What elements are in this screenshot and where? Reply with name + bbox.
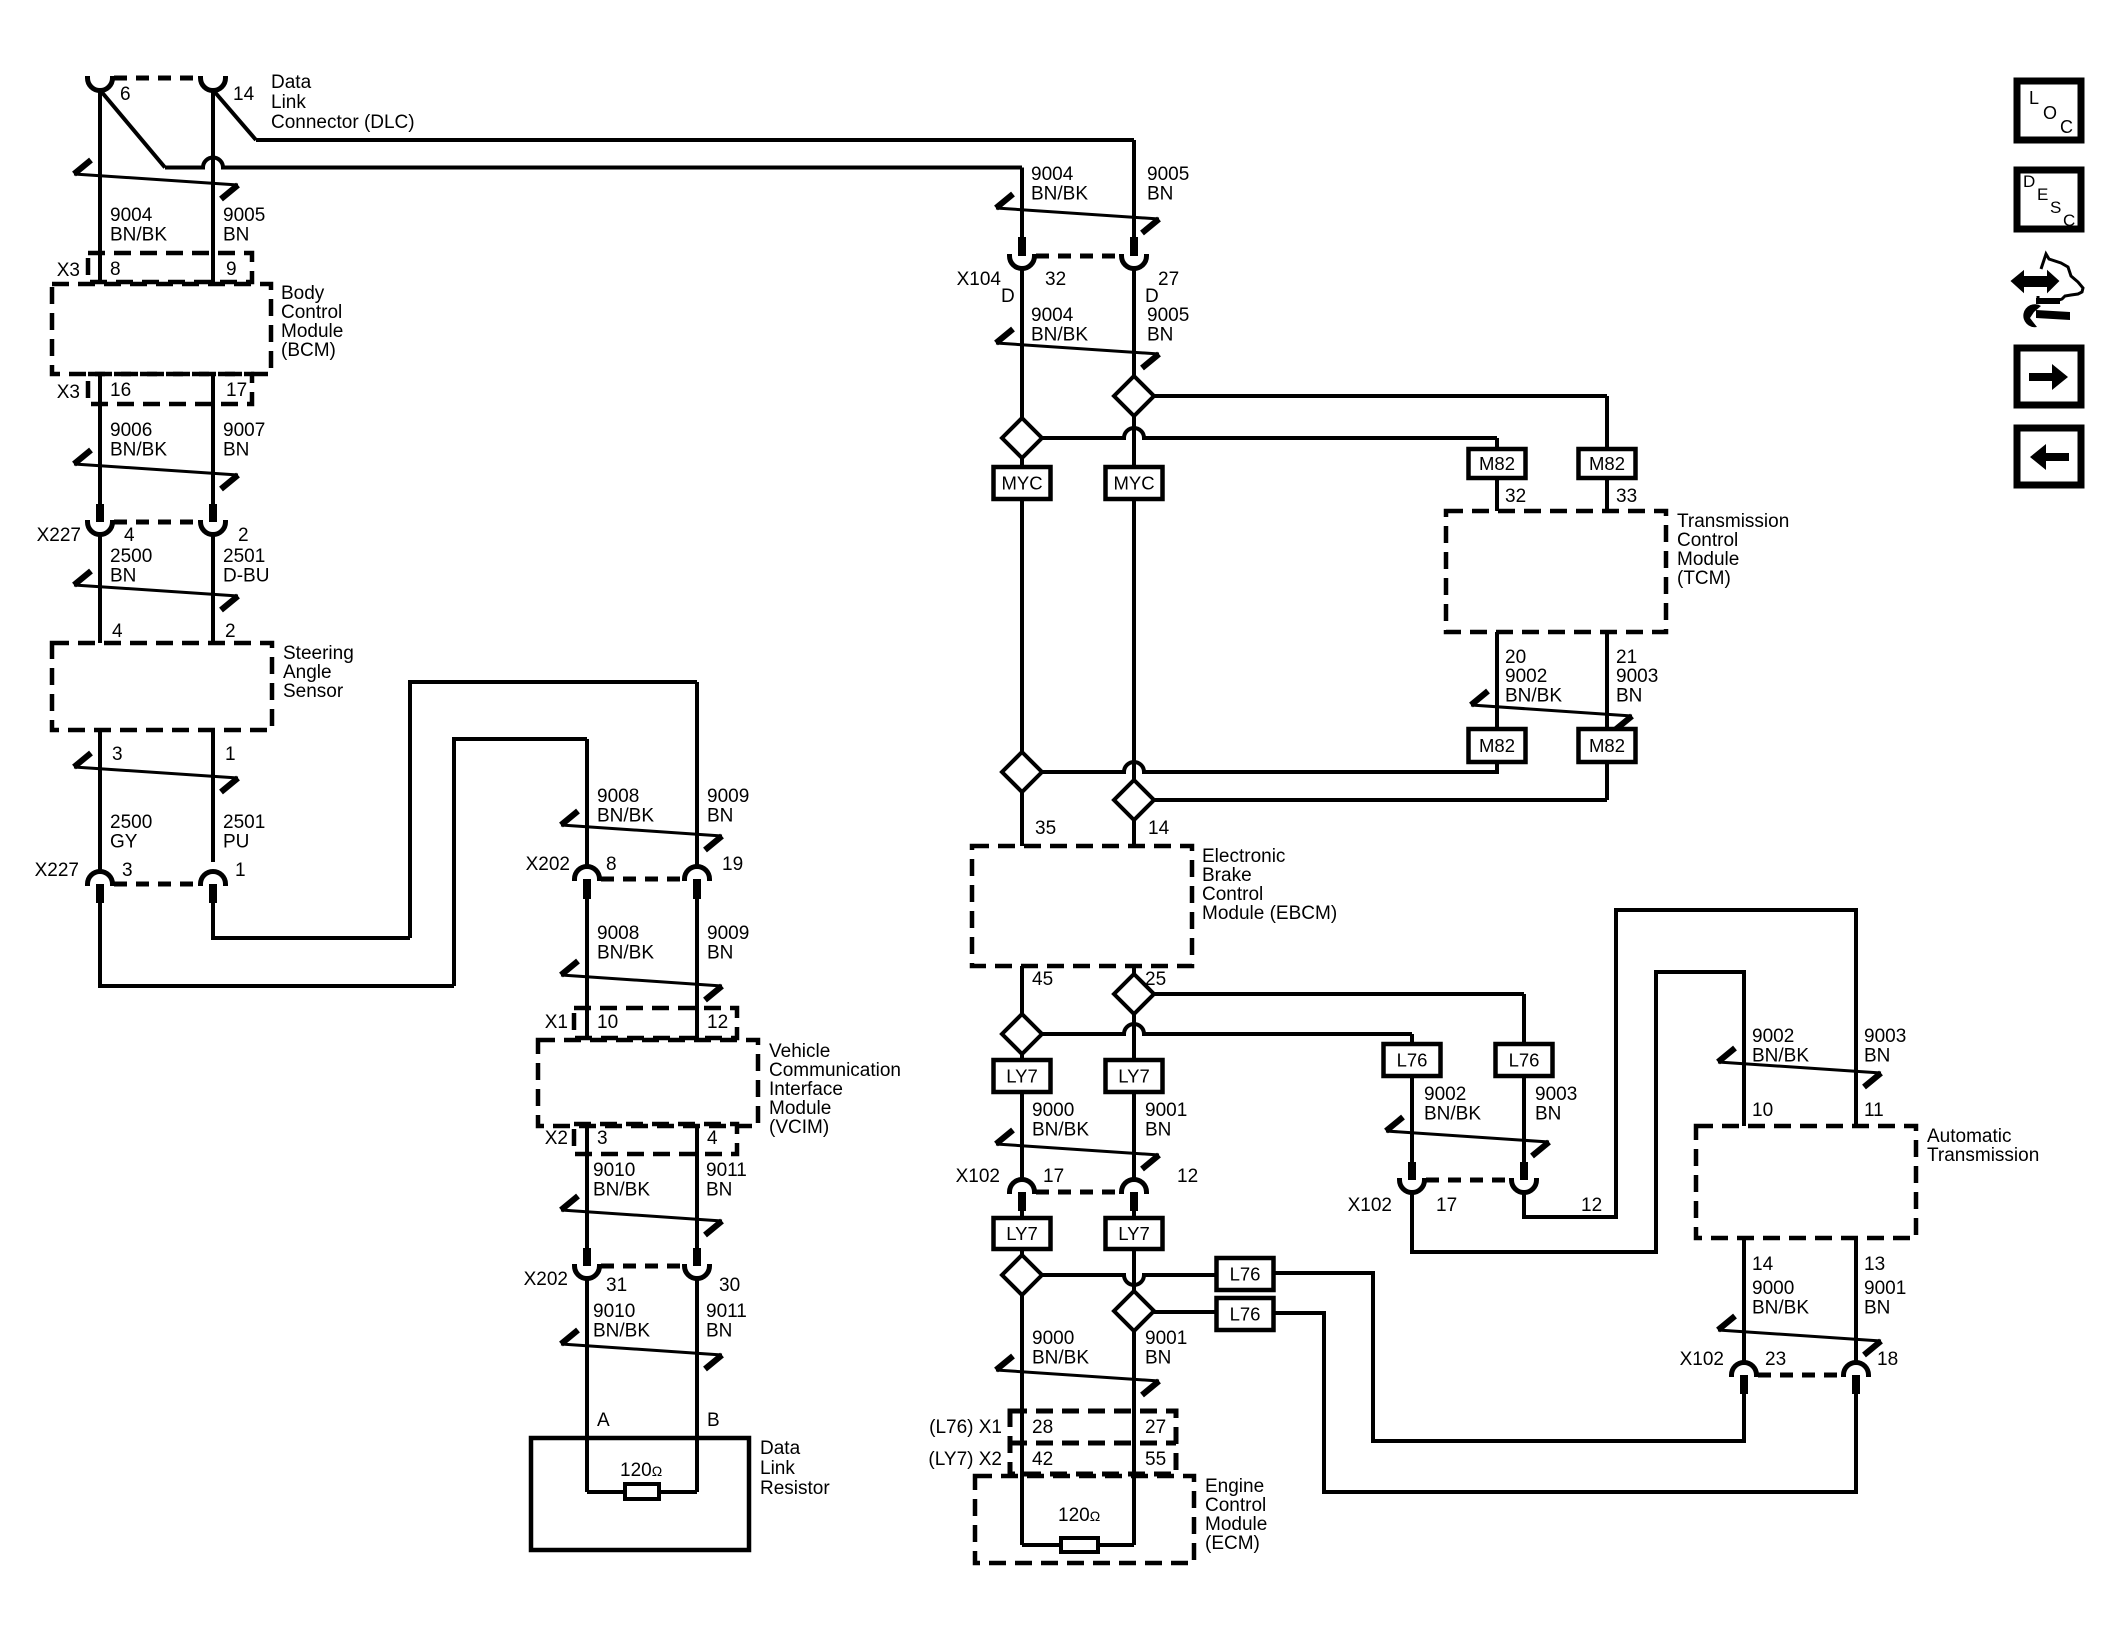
connector X202 row2 dashed line <box>601 1264 685 1269</box>
svg-text:9008: 9008 <box>597 923 639 944</box>
wire 9001 AT pin 13 down <box>1854 1238 1858 1362</box>
svg-text:3: 3 <box>122 860 133 881</box>
svg-text:X102: X102 <box>956 1166 1000 1187</box>
module BCM box <box>52 284 271 374</box>
wire from ECM 120 ohm resistor <box>1098 1543 1134 1547</box>
svg-text:LY7: LY7 <box>1006 1223 1038 1244</box>
svg-text:32: 32 <box>1505 486 1526 507</box>
svg-text:9009: 9009 <box>707 923 749 944</box>
svg-text:3: 3 <box>597 1128 608 1149</box>
wire from X227-1 right toward VCIM <box>213 903 410 938</box>
svg-text:30: 30 <box>719 1275 740 1296</box>
module EBCM box <box>972 846 1192 966</box>
wire splice into L76 box right <box>1522 994 1526 1044</box>
svg-text:(TCM): (TCM) <box>1677 568 1731 589</box>
twisted pair symbol 9002/9003 AT <box>1718 1062 1881 1073</box>
svg-text:17: 17 <box>1436 1195 1457 1216</box>
code box MYC right <box>1106 467 1163 499</box>
code box L76 ECM upper <box>1217 1258 1274 1290</box>
wire 9000 LY7 to X102-17 <box>1020 1092 1024 1180</box>
wire splice to M82 lower-right <box>1154 798 1607 802</box>
connector X104 pin 32 cup <box>1010 254 1035 269</box>
wire M82 lower-right down to splice run <box>1605 762 1609 800</box>
svg-text:9005: 9005 <box>1147 305 1189 326</box>
svg-text:Module: Module <box>1677 549 1739 570</box>
svg-text:Connector (DLC): Connector (DLC) <box>271 112 415 133</box>
wire 2500 BN to steering angle sensor <box>98 534 102 643</box>
terminal stub X227-1 <box>209 884 217 903</box>
terminal stub X227-2 <box>209 504 217 522</box>
svg-text:L76: L76 <box>1509 1050 1540 1071</box>
svg-text:4: 4 <box>124 525 135 546</box>
terminal stub X227-3 <box>96 884 104 903</box>
svg-text:9008: 9008 <box>597 786 639 807</box>
svg-text:BN: BN <box>1535 1104 1561 1125</box>
svg-text:Brake: Brake <box>1202 865 1252 886</box>
svg-text:4: 4 <box>707 1128 718 1149</box>
svg-text:X227: X227 <box>37 525 81 546</box>
module TCM box <box>1446 511 1666 632</box>
twisted pair symbol 9000/9001 ECM <box>996 1370 1159 1381</box>
svg-text:16: 16 <box>110 380 131 401</box>
svg-text:55: 55 <box>1145 1449 1166 1470</box>
svg-text:L76: L76 <box>1230 1264 1261 1285</box>
wire A inside resistor box <box>585 1438 589 1492</box>
connector X227 pin 1 cup <box>200 872 225 887</box>
wire diagonal branch from DLC pin 14 <box>213 90 256 140</box>
wire splice to L76 lower ECM <box>1154 1310 1217 1314</box>
svg-text:9006: 9006 <box>110 420 152 441</box>
svg-text:33: 33 <box>1616 486 1637 507</box>
wire X102-18 routed to L76 lower ECM <box>1273 1313 1856 1492</box>
svg-text:45: 45 <box>1032 969 1053 990</box>
wire 9004 DLC pin 6 down to BCM X3-8 <box>98 90 102 284</box>
wire 9009 to VCIM X1-12 <box>695 899 699 1008</box>
code box M82 top-right <box>1579 449 1636 478</box>
svg-text:M82: M82 <box>1589 735 1625 756</box>
svg-text:14: 14 <box>233 84 255 105</box>
twisted pair symbol 2500/2501 <box>74 585 238 596</box>
splice diamond 9001 lower <box>1114 1291 1154 1331</box>
twisted pair symbol 9004/9005 below X104 <box>996 343 1159 354</box>
connector X102 23/18 dashed line <box>1758 1373 1842 1378</box>
svg-text:9003: 9003 <box>1535 1084 1577 1105</box>
svg-text:17: 17 <box>226 380 247 401</box>
svg-text:Transmission: Transmission <box>1677 511 1789 532</box>
connector X202 pin 31 cup <box>575 1264 600 1279</box>
connector X102 pin 18 cup <box>1844 1363 1869 1378</box>
svg-text:BN/BK: BN/BK <box>1424 1104 1481 1125</box>
wire 9000 to ECM X1-28 <box>1020 1295 1024 1411</box>
svg-text:9003: 9003 <box>1864 1026 1906 1047</box>
svg-text:9: 9 <box>226 259 237 280</box>
svg-text:12: 12 <box>1177 1166 1198 1187</box>
svg-text:(L76) X1: (L76) X1 <box>929 1417 1002 1438</box>
svg-text:BN/BK: BN/BK <box>597 943 654 964</box>
terminal stub X104-27 <box>1130 237 1138 256</box>
svg-text:BN/BK: BN/BK <box>1505 686 1562 707</box>
resistor R 120 ohm (ECM) <box>1061 1538 1098 1552</box>
svg-text:28: 28 <box>1032 1417 1053 1438</box>
svg-text:9002: 9002 <box>1505 666 1547 687</box>
svg-text:35: 35 <box>1035 818 1056 839</box>
svg-text:BN: BN <box>706 1180 732 1201</box>
svg-text:2501: 2501 <box>223 546 265 567</box>
svg-text:Transmission: Transmission <box>1927 1145 2039 1166</box>
wire 9002 L76 to X102-17 right <box>1410 1076 1414 1180</box>
svg-text:Body: Body <box>281 283 325 304</box>
terminal stub X102-23 <box>1740 1375 1748 1394</box>
svg-text:Vehicle: Vehicle <box>769 1041 830 1062</box>
terminal stub X102-12 <box>1130 1192 1138 1211</box>
splice diamond below EBCM pin 45 <box>1002 1014 1042 1054</box>
svg-text:10: 10 <box>597 1012 618 1033</box>
svg-text:LY7: LY7 <box>1118 1066 1150 1087</box>
wire to ECM 120 ohm resistor <box>1022 1543 1061 1547</box>
code box M82 top-left <box>1469 449 1526 478</box>
svg-text:Link: Link <box>271 92 306 113</box>
svg-text:32: 32 <box>1045 269 1066 290</box>
wire 9005 down to MYC <box>1132 416 1136 467</box>
svg-text:MYC: MYC <box>1113 473 1154 494</box>
code box M82 lower-right <box>1579 729 1636 762</box>
connector X202 dashed line <box>601 877 685 882</box>
svg-text:BN: BN <box>1145 1120 1171 1141</box>
wire splice to TCM M82-33 <box>1154 394 1607 398</box>
svg-text:9000: 9000 <box>1752 1278 1794 1299</box>
twisted pair symbol 9000/9001 <box>996 1144 1159 1155</box>
svg-text:GY: GY <box>110 832 138 853</box>
wire splice to M82 lower-left (hop) <box>1042 762 1497 772</box>
twisted pair symbol 9000/9001 AT <box>1718 1330 1881 1341</box>
twisted pair symbol 9006/9007 <box>74 464 238 475</box>
svg-text:120Ω: 120Ω <box>620 1460 662 1481</box>
svg-text:(VCIM): (VCIM) <box>769 1117 829 1138</box>
svg-text:Module: Module <box>769 1098 831 1119</box>
svg-text:8: 8 <box>606 854 617 875</box>
svg-text:BN/BK: BN/BK <box>110 225 167 246</box>
wire into VCIM pin 12 <box>695 1008 699 1040</box>
svg-text:8: 8 <box>110 259 121 280</box>
svg-text:Electronic: Electronic <box>1202 846 1285 867</box>
wire 9005 horizontal run to X104 <box>256 138 1134 142</box>
svg-text:21: 21 <box>1616 647 1637 668</box>
svg-text:1: 1 <box>225 744 236 765</box>
svg-text:12: 12 <box>707 1012 728 1033</box>
code box LY7 upper-right <box>1106 1060 1163 1092</box>
wire 9003 L76 to X102-12 right <box>1522 1076 1526 1180</box>
wire 9004 down to MYC <box>1020 458 1024 467</box>
svg-text:17: 17 <box>1043 1166 1064 1187</box>
module Steering Angle Sensor box <box>52 643 272 730</box>
connector X104 dashed line <box>1036 254 1120 259</box>
connector X102 pin 12 cup right <box>1512 1178 1537 1193</box>
wire MYC left down to splice <box>1020 499 1024 752</box>
svg-text:BN: BN <box>706 1321 732 1342</box>
wire 9004 X104 to splice <box>1020 268 1024 418</box>
svg-text:PU: PU <box>223 832 249 853</box>
icon LOC box <box>2017 81 2081 140</box>
wire down to LY7 left <box>1020 1054 1024 1060</box>
svg-text:13: 13 <box>1864 1254 1885 1275</box>
code box L76 right-right <box>1496 1044 1553 1076</box>
splice diamond above EBCM pin 35 <box>1002 752 1042 792</box>
wire LY7 to splice <box>1020 1249 1024 1255</box>
svg-text:Angle: Angle <box>283 662 332 683</box>
connector X227 pin 2 cup <box>200 520 225 535</box>
svg-text:9004: 9004 <box>110 205 153 226</box>
terminal stub X227-4 <box>96 504 104 522</box>
svg-text:BN: BN <box>1145 1348 1171 1369</box>
wire X102-23 routed to L76 upper ECM <box>1273 1273 1744 1441</box>
svg-text:MYC: MYC <box>1001 473 1042 494</box>
svg-text:BN: BN <box>707 943 733 964</box>
wire 9003 routed to AT pin 11 <box>1524 910 1856 1217</box>
svg-text:BN/BK: BN/BK <box>1031 325 1088 346</box>
code box L76 right-left <box>1384 1044 1441 1076</box>
connector X102 dashed line right <box>1426 1178 1510 1183</box>
wire 9005 DLC pin 14 down to BCM X3-9 <box>211 90 215 284</box>
svg-text:BN/BK: BN/BK <box>110 440 167 461</box>
connector X227 dashed line <box>114 520 199 525</box>
svg-text:Data: Data <box>271 72 312 93</box>
wire 9010 to resistor pin A <box>585 1278 589 1438</box>
twisted pair symbol 9002/9003 TCM <box>1471 705 1632 716</box>
wire riser 9008 to VCIM column <box>454 739 587 986</box>
svg-text:(BCM): (BCM) <box>281 340 336 361</box>
wire down to M82 top-right box <box>1605 396 1609 449</box>
svg-text:42: 42 <box>1032 1449 1053 1470</box>
code box M82 lower-left <box>1469 729 1526 762</box>
connector X102 pin 12 cup <box>1122 1180 1147 1195</box>
connector ECM X1/X2 rows pins 28/27/42/55 <box>1010 1411 1176 1474</box>
twisted pair symbol 9002/9003 right <box>1386 1131 1549 1142</box>
svg-text:X1: X1 <box>545 1012 568 1033</box>
wire 9004 horizontal run to X104 (hop over pin 14 wire) <box>165 158 1022 168</box>
svg-text:4: 4 <box>112 621 123 642</box>
terminal stub X102-18 <box>1852 1375 1860 1394</box>
wire 9005 X104 to splice <box>1132 268 1136 376</box>
svg-text:9011: 9011 <box>706 1301 747 1322</box>
svg-text:L76: L76 <box>1397 1050 1428 1071</box>
wire 9001 to ECM X1-27 <box>1132 1331 1136 1411</box>
svg-text:Automatic: Automatic <box>1927 1126 2011 1147</box>
twisted pair symbol 9004/9005 at DLC <box>74 174 238 185</box>
wire splice to L76 left branch (hop) <box>1042 1024 1412 1034</box>
svg-text:9000: 9000 <box>1032 1328 1074 1349</box>
wire 9006 from BCM X3-16 <box>98 374 102 504</box>
code box LY7 lower-right <box>1106 1218 1163 1249</box>
svg-text:Module: Module <box>1205 1514 1267 1535</box>
svg-text:Steering: Steering <box>283 643 354 664</box>
svg-text:9001: 9001 <box>1145 1100 1187 1121</box>
svg-text:1: 1 <box>235 860 246 881</box>
connector X102 pin 23 cup <box>1732 1363 1757 1378</box>
svg-text:BN: BN <box>223 225 249 246</box>
Data Link Resistor box <box>531 1438 749 1550</box>
svg-text:9005: 9005 <box>1147 164 1189 185</box>
svg-text:2: 2 <box>238 525 249 546</box>
svg-text:BN: BN <box>1147 184 1173 205</box>
wire MYC right down to splice <box>1132 499 1136 780</box>
svg-text:B: B <box>707 1410 720 1431</box>
svg-text:C: C <box>2060 117 2073 137</box>
wire 9009 down to X202-19 <box>695 682 699 866</box>
svg-text:M82: M82 <box>1479 453 1515 474</box>
svg-text:LY7: LY7 <box>1118 1223 1150 1244</box>
code box LY7 lower-left <box>994 1218 1051 1249</box>
svg-text:D: D <box>1145 286 1159 307</box>
connector X227 pin 3 cup <box>88 872 113 887</box>
svg-text:19: 19 <box>722 854 743 875</box>
svg-text:BN: BN <box>223 440 249 461</box>
wire M82 to TCM pin 33 <box>1605 478 1609 511</box>
terminal stub X202-31 <box>583 1248 591 1266</box>
svg-text:11: 11 <box>1864 1100 1884 1121</box>
wire 9001 into ECM <box>1132 1411 1136 1545</box>
wire 9011 to resistor pin B <box>695 1278 699 1438</box>
svg-text:Data: Data <box>760 1438 801 1459</box>
svg-text:120Ω: 120Ω <box>1058 1505 1100 1526</box>
svg-text:Control: Control <box>1677 530 1738 551</box>
icon left-arrow box <box>2017 428 2081 485</box>
wire 2501 D-BU to steering angle sensor <box>211 534 215 643</box>
svg-text:X202: X202 <box>526 854 570 875</box>
wire EBCM 25 to splice <box>1132 966 1136 974</box>
svg-text:BN/BK: BN/BK <box>597 806 654 827</box>
svg-text:D: D <box>2023 172 2035 191</box>
svg-text:C: C <box>2063 211 2075 230</box>
svg-text:9010: 9010 <box>593 1301 635 1322</box>
wire 9005 down to X104-27 <box>1132 140 1136 237</box>
svg-text:BN/BK: BN/BK <box>1032 1120 1089 1141</box>
wire 9011 from VCIM X2-4 <box>695 1126 699 1253</box>
code box L76 ECM lower <box>1217 1298 1274 1330</box>
svg-text:10: 10 <box>1752 1100 1773 1121</box>
svg-text:BN/BK: BN/BK <box>1031 184 1088 205</box>
svg-text:Control: Control <box>1202 884 1263 905</box>
svg-text:BN/BK: BN/BK <box>1752 1298 1809 1319</box>
svg-text:BN: BN <box>1864 1298 1890 1319</box>
wire EBCM 45 to splice <box>1020 966 1024 1014</box>
svg-text:S: S <box>2050 198 2061 217</box>
svg-text:M82: M82 <box>1589 453 1625 474</box>
connector DLC pin 14 cup <box>200 76 225 91</box>
code box LY7 upper-left <box>994 1060 1051 1092</box>
connector X2 row pins 3/4 <box>574 1124 737 1154</box>
twisted pair symbol 9010/9011 lower <box>561 1344 722 1355</box>
svg-text:9004: 9004 <box>1031 305 1074 326</box>
twisted pair symbol 9008/9009 lower <box>561 975 722 986</box>
svg-text:9000: 9000 <box>1032 1100 1074 1121</box>
terminal stub X102-17 right <box>1408 1162 1416 1180</box>
svg-text:27: 27 <box>1158 269 1179 290</box>
connector X202 pin 19 cup <box>685 867 710 882</box>
terminal stub X104-32 <box>1018 237 1026 256</box>
svg-text:27: 27 <box>1145 1417 1166 1438</box>
svg-text:9002: 9002 <box>1424 1084 1466 1105</box>
svg-text:20: 20 <box>1505 647 1526 668</box>
svg-text:LY7: LY7 <box>1006 1066 1038 1087</box>
svg-text:Engine: Engine <box>1205 1476 1264 1497</box>
splice diamond 9000 lower <box>1002 1255 1042 1295</box>
twisted pair symbol 9004/9005 above X104 <box>996 208 1159 219</box>
svg-text:BN/BK: BN/BK <box>1032 1348 1089 1369</box>
svg-text:14: 14 <box>1148 818 1170 839</box>
svg-text:9011: 9011 <box>706 1160 747 1181</box>
svg-text:12: 12 <box>1581 1195 1602 1216</box>
wire diagonal branch from DLC pin 6 <box>100 90 165 168</box>
wire into VCIM pin 10 <box>585 1008 589 1040</box>
icon wrench <box>2023 304 2041 327</box>
svg-text:9005: 9005 <box>223 205 265 226</box>
wire splice to L76 right branch <box>1154 992 1524 996</box>
svg-text:X227: X227 <box>35 860 79 881</box>
connector X3 row pins 16/17 <box>88 374 252 404</box>
wire splice to L76 upper ECM (hop under) <box>1042 1275 1217 1285</box>
svg-text:BN: BN <box>110 566 136 587</box>
wire 9004 down to X104-32 <box>1020 168 1024 238</box>
svg-text:X202: X202 <box>524 1269 568 1290</box>
svg-text:M82: M82 <box>1479 735 1515 756</box>
wire M82 to TCM pin 32 <box>1495 478 1499 511</box>
terminal stub X202-19 <box>693 879 701 899</box>
icon DESC box <box>2017 170 2081 229</box>
svg-text:E: E <box>2037 185 2048 204</box>
icon double-arrow with car outline <box>2012 272 2058 291</box>
svg-text:2501: 2501 <box>223 812 265 833</box>
svg-text:Link: Link <box>760 1458 795 1479</box>
svg-text:X3: X3 <box>57 382 80 403</box>
terminal stub X202-30 <box>693 1248 701 1266</box>
wire to LY7 lower-left <box>1020 1211 1024 1218</box>
svg-text:BN: BN <box>707 806 733 827</box>
wire from X227-3 right toward VCIM <box>100 903 454 986</box>
terminal stub X202-8 <box>583 879 591 899</box>
wire riser 9009 to VCIM column <box>410 682 697 938</box>
svg-text:9009: 9009 <box>707 786 749 807</box>
wire 9008 down to X202-8 <box>585 739 589 866</box>
svg-text:X3: X3 <box>57 260 80 281</box>
svg-text:BN: BN <box>1616 686 1642 707</box>
wire 9007 from BCM X3-17 <box>211 374 215 504</box>
svg-text:D-BU: D-BU <box>223 566 269 587</box>
wire to EBCM pin 35 <box>1020 792 1024 846</box>
module Automatic Transmission box <box>1696 1126 1916 1238</box>
resistor R 120 ohm (data link) <box>625 1484 659 1499</box>
wire to 120 ohm resistor <box>587 1490 625 1494</box>
wire down to LY7 right <box>1132 1014 1136 1060</box>
wire splice to TCM M82-32 (hop) <box>1042 428 1497 438</box>
wire 9010 from VCIM X2-3 <box>585 1126 589 1253</box>
wire to LY7 lower-right <box>1132 1211 1136 1218</box>
svg-text:BN/BK: BN/BK <box>593 1180 650 1201</box>
svg-text:9010: 9010 <box>593 1160 635 1181</box>
svg-text:2500: 2500 <box>110 546 152 567</box>
wire 9003 TCM-21 to M82 <box>1605 632 1609 729</box>
svg-text:BN: BN <box>1864 1046 1890 1067</box>
connector DLC pin 6 cup <box>88 76 113 91</box>
wire B inside resistor box <box>695 1438 699 1492</box>
wire M82 lower-left down to splice run <box>1495 762 1499 774</box>
connector X227 pin 4 cup <box>88 520 113 535</box>
connector X3 row pins 8/9 <box>88 253 252 282</box>
svg-text:BN: BN <box>1147 325 1173 346</box>
svg-text:(ECM): (ECM) <box>1205 1533 1260 1554</box>
connector DLC dashed body <box>114 76 199 81</box>
wire 2500 GY down to X227-3 <box>98 730 102 871</box>
twisted pair symbol 9008/9009 <box>561 825 722 836</box>
